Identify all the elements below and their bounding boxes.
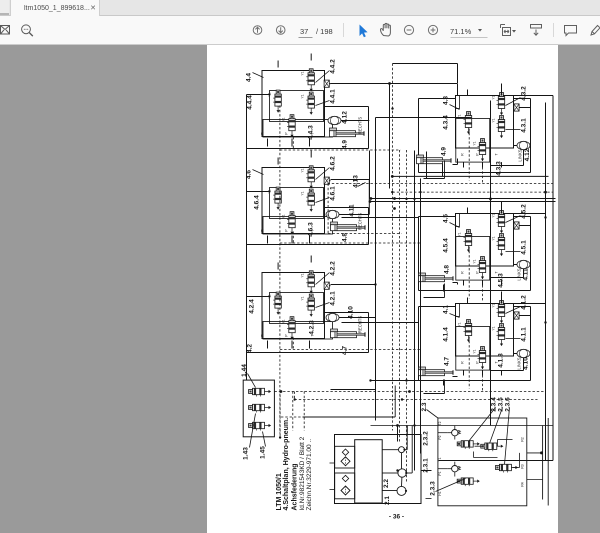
svg-text:4.9: 4.9 xyxy=(441,147,448,156)
svg-text:Y1: Y1 xyxy=(492,303,496,307)
svg-text:4.2: 4.2 xyxy=(247,344,254,353)
svg-text:4.10: 4.10 xyxy=(523,357,530,370)
svg-text:Zeichn.Nr.3229-971.00 ..: Zeichn.Nr.3229-971.00 .. xyxy=(306,439,313,511)
svg-text:LINKS: LINKS xyxy=(517,268,522,280)
svg-text:4.1.2: 4.1.2 xyxy=(521,295,528,310)
svg-text:2.3.4: 2.3.4 xyxy=(491,397,498,412)
svg-text:4.3: 4.3 xyxy=(443,96,450,105)
svg-text:Y1: Y1 xyxy=(301,71,305,75)
svg-text:R4: R4 xyxy=(520,482,524,486)
svg-text:1.44: 1.44 xyxy=(241,364,248,377)
svg-text:2.1: 2.1 xyxy=(384,496,391,505)
svg-text:4.7: 4.7 xyxy=(342,346,349,355)
svg-text:P: P xyxy=(476,361,480,364)
svg-text:4.3.2: 4.3.2 xyxy=(521,86,528,101)
svg-text:Y1: Y1 xyxy=(282,117,286,121)
svg-text:4.6.4: 4.6.4 xyxy=(254,195,261,210)
svg-text:RECHTS: RECHTS xyxy=(358,117,363,134)
svg-text:Y1: Y1 xyxy=(492,236,496,240)
svg-text:Y1: Y1 xyxy=(268,92,272,96)
svg-text:Y1: Y1 xyxy=(458,322,462,326)
svg-text:4.4.1: 4.4.1 xyxy=(330,89,337,104)
svg-text:4.5.2: 4.5.2 xyxy=(521,204,528,219)
svg-text:LINKS: LINKS xyxy=(518,149,523,161)
svg-text:4.1.4: 4.1.4 xyxy=(443,327,450,342)
svg-text:4.7: 4.7 xyxy=(444,357,451,366)
svg-text:4.8: 4.8 xyxy=(342,233,349,242)
svg-text:Y1: Y1 xyxy=(301,191,305,195)
svg-text:2.3.2: 2.3.2 xyxy=(423,431,430,446)
svg-text:/ 198: / 198 xyxy=(316,27,333,36)
svg-text:4.5.1: 4.5.1 xyxy=(521,240,528,255)
svg-text:2.2: 2.2 xyxy=(383,479,390,488)
svg-text:P: P xyxy=(285,334,289,337)
svg-text:4.2.3: 4.2.3 xyxy=(309,320,316,335)
svg-text:4.4.2: 4.4.2 xyxy=(330,59,337,74)
svg-text:4.12: 4.12 xyxy=(524,148,531,161)
svg-text:R2: R2 xyxy=(520,437,524,441)
svg-text:Y1: Y1 xyxy=(268,189,272,193)
svg-text:4.4: 4.4 xyxy=(246,73,253,82)
svg-text:4.9: 4.9 xyxy=(342,140,349,149)
svg-text:Achsfederung: Achsfederung xyxy=(291,463,298,510)
svg-text:P2: P2 xyxy=(438,435,442,439)
svg-text:4.12: 4.12 xyxy=(342,111,349,124)
svg-text:4.6: 4.6 xyxy=(246,170,253,179)
svg-text:- 36 -: - 36 - xyxy=(389,514,404,521)
svg-text:P: P xyxy=(285,132,289,135)
svg-text:T: T xyxy=(495,271,499,273)
svg-text:Y1: Y1 xyxy=(282,214,286,218)
svg-text:1.43: 1.43 xyxy=(243,447,250,460)
svg-text:P1: P1 xyxy=(438,471,442,475)
svg-text:4.6.1: 4.6.1 xyxy=(330,186,337,201)
svg-text:Y1: Y1 xyxy=(458,232,462,236)
svg-text:T1: T1 xyxy=(438,457,442,461)
svg-text:4.1.1: 4.1.1 xyxy=(521,327,528,342)
svg-text:4.5: 4.5 xyxy=(443,214,450,223)
svg-text:2.3.1: 2.3.1 xyxy=(423,458,430,473)
svg-text:Y1: Y1 xyxy=(458,114,462,118)
svg-text:Y1: Y1 xyxy=(492,326,496,330)
svg-text:R: R xyxy=(461,271,465,274)
svg-text:4.6.2: 4.6.2 xyxy=(330,156,337,171)
svg-text:4.5.4: 4.5.4 xyxy=(443,238,450,253)
svg-text:Y1: Y1 xyxy=(473,259,477,263)
svg-text:4.5.3: 4.5.3 xyxy=(498,273,505,288)
svg-text:71.1%: 71.1% xyxy=(450,27,472,36)
svg-text:LINKS: LINKS xyxy=(517,357,522,369)
svg-text:P: P xyxy=(476,271,480,274)
svg-text:4.6.3: 4.6.3 xyxy=(308,222,315,237)
svg-text:R: R xyxy=(461,361,465,364)
svg-text:4.10: 4.10 xyxy=(348,306,355,319)
svg-text:4.11: 4.11 xyxy=(523,268,530,281)
svg-text:Y1: Y1 xyxy=(282,319,286,323)
svg-text:RECHTS: RECHTS xyxy=(358,316,363,333)
svg-text:Y1: Y1 xyxy=(301,168,305,172)
svg-text:4.Schaltplan, Hydro-pneum.: 4.Schaltplan, Hydro-pneum. xyxy=(283,418,290,511)
svg-text:R3: R3 xyxy=(520,464,524,468)
svg-text:Y1: Y1 xyxy=(301,273,305,277)
svg-text:4.3.1: 4.3.1 xyxy=(521,118,528,133)
svg-text:RECHTS: RECHTS xyxy=(358,213,363,230)
svg-text:2.3.5: 2.3.5 xyxy=(498,397,505,412)
svg-text:T: T xyxy=(495,153,499,155)
svg-text:2.3.6: 2.3.6 xyxy=(505,397,512,412)
svg-text:1.45: 1.45 xyxy=(260,446,267,459)
svg-text:Y1: Y1 xyxy=(492,118,496,122)
svg-text:R: R xyxy=(461,153,465,156)
svg-text:4.2.4: 4.2.4 xyxy=(249,299,256,314)
svg-text:Y1: Y1 xyxy=(301,94,305,98)
svg-text:4.2.2: 4.2.2 xyxy=(330,261,337,276)
svg-text:P: P xyxy=(476,153,480,156)
svg-text:Y1: Y1 xyxy=(268,294,272,298)
svg-text:37: 37 xyxy=(300,27,308,36)
svg-text:4.4.4: 4.4.4 xyxy=(247,95,254,110)
svg-text:Y1: Y1 xyxy=(301,296,305,300)
svg-text:T2: T2 xyxy=(438,421,442,425)
svg-text:4.4.3: 4.4.3 xyxy=(308,125,315,140)
svg-text:2.3.3: 2.3.3 xyxy=(430,481,437,496)
svg-text:4.1.3: 4.1.3 xyxy=(498,353,505,368)
svg-text:4.2.1: 4.2.1 xyxy=(330,291,337,306)
svg-text:H1: H1 xyxy=(438,491,442,495)
svg-text:P: P xyxy=(285,229,289,232)
svg-text:4.1: 4.1 xyxy=(443,305,450,314)
svg-text:4.13: 4.13 xyxy=(353,175,360,188)
svg-text:Y1: Y1 xyxy=(492,95,496,99)
svg-text:Y1: Y1 xyxy=(473,141,477,145)
svg-text:4.3.3: 4.3.3 xyxy=(496,161,503,176)
svg-text:2.3: 2.3 xyxy=(421,402,428,411)
svg-text:4.11: 4.11 xyxy=(349,204,356,217)
svg-text:4.8: 4.8 xyxy=(444,265,451,274)
svg-text:Y1: Y1 xyxy=(492,213,496,217)
svg-text:4.3.4: 4.3.4 xyxy=(443,115,450,130)
svg-text:Y1: Y1 xyxy=(473,349,477,353)
